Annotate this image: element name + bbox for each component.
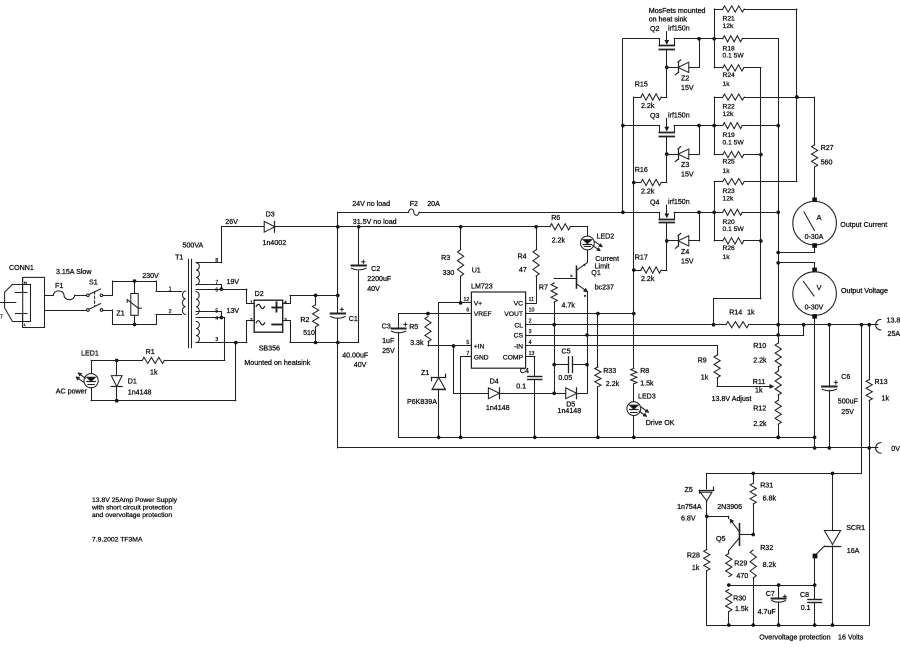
svg-text:0.1 5W: 0.1 5W	[723, 226, 745, 233]
svg-text:CS: CS	[514, 333, 524, 340]
svg-text:2.2k: 2.2k	[552, 237, 566, 245]
svg-text:SB356: SB356	[259, 345, 280, 353]
svg-text:510: 510	[303, 329, 315, 337]
svg-text:Q2: Q2	[650, 25, 660, 33]
svg-text:Z1: Z1	[421, 369, 429, 377]
svg-text:15V: 15V	[681, 171, 694, 179]
svg-text:0.1 5W: 0.1 5W	[723, 139, 745, 146]
svg-text:1: 1	[169, 286, 172, 292]
svg-text:R24: R24	[723, 72, 736, 79]
svg-text:16 Volts: 16 Volts	[838, 634, 864, 642]
svg-text:Q4: Q4	[650, 199, 660, 207]
svg-text:R21: R21	[723, 16, 736, 23]
svg-text:irf150n: irf150n	[668, 198, 690, 206]
svg-text:Z4: Z4	[681, 248, 689, 256]
svg-text:irf150n: irf150n	[668, 111, 690, 119]
svg-text:560: 560	[821, 159, 833, 167]
svg-text:CL: CL	[514, 322, 523, 329]
svg-text:2.2k: 2.2k	[753, 356, 767, 364]
svg-text:and overvoltage protection: and overvoltage protection	[92, 512, 172, 519]
svg-text:R31: R31	[760, 482, 773, 490]
svg-text:R15: R15	[635, 81, 648, 89]
svg-text:1n754A: 1n754A	[677, 503, 702, 511]
svg-text:R1: R1	[146, 348, 155, 356]
svg-text:C1: C1	[349, 315, 358, 323]
svg-text:D4: D4	[490, 378, 499, 386]
svg-text:12k: 12k	[723, 195, 734, 202]
svg-text:0.1: 0.1	[516, 383, 526, 391]
svg-text:1n4148: 1n4148	[128, 388, 152, 396]
svg-text:1k: 1k	[150, 368, 158, 376]
svg-text:6: 6	[215, 288, 218, 294]
svg-text:2200uF: 2200uF	[367, 275, 392, 283]
svg-text:+: +	[834, 378, 839, 387]
svg-text:R3: R3	[441, 254, 450, 262]
svg-text:26V: 26V	[225, 218, 238, 226]
svg-text:19V: 19V	[227, 278, 240, 286]
svg-text:470: 470	[736, 572, 748, 580]
svg-text:Z2: Z2	[681, 74, 689, 82]
svg-text:4.7k: 4.7k	[562, 301, 576, 309]
svg-text:LED3: LED3	[638, 393, 656, 401]
svg-text:1k: 1k	[723, 81, 731, 88]
svg-text:C4: C4	[520, 367, 529, 375]
svg-text:P6K839A: P6K839A	[407, 398, 437, 406]
svg-text:C3: C3	[382, 323, 391, 331]
svg-text:2: 2	[169, 309, 172, 315]
svg-text:13.8: 13.8	[887, 316, 900, 324]
svg-text:15V: 15V	[681, 84, 694, 92]
svg-text:2.2k: 2.2k	[641, 102, 655, 110]
svg-text:1: 1	[250, 300, 253, 305]
svg-text:0.05: 0.05	[558, 374, 572, 382]
svg-text:N: N	[24, 280, 27, 285]
svg-text:AC power: AC power	[56, 387, 88, 395]
svg-text:0V: 0V	[891, 445, 900, 453]
svg-text:3: 3	[529, 329, 532, 335]
svg-text:8: 8	[215, 258, 218, 264]
svg-text:D2: D2	[255, 290, 264, 298]
svg-text:16A: 16A	[847, 547, 860, 555]
svg-text:R5: R5	[409, 323, 418, 331]
svg-text:Q5: Q5	[716, 535, 726, 543]
svg-text:R6: R6	[551, 214, 560, 222]
svg-text:25V: 25V	[841, 408, 854, 416]
svg-text:V+: V+	[474, 301, 482, 308]
svg-text:D1: D1	[128, 378, 137, 386]
svg-text:3: 3	[215, 337, 218, 343]
svg-text:330: 330	[443, 269, 455, 277]
svg-text:LED2: LED2	[597, 233, 615, 241]
svg-text:T1: T1	[175, 253, 183, 261]
svg-text:R27: R27	[821, 144, 834, 152]
svg-text:13.8V Adjust: 13.8V Adjust	[712, 395, 752, 403]
svg-text:R18: R18	[723, 45, 736, 52]
svg-text:LED1: LED1	[81, 349, 99, 357]
svg-text:3: 3	[284, 317, 287, 322]
svg-text:15V: 15V	[681, 257, 694, 265]
svg-text:+IN: +IN	[474, 344, 485, 351]
svg-text:2.2k: 2.2k	[753, 420, 767, 428]
svg-text:R26: R26	[723, 245, 736, 252]
svg-text:1n4002: 1n4002	[263, 239, 287, 247]
svg-text:VC: VC	[514, 301, 524, 308]
svg-text:31.5V no load: 31.5V no load	[353, 218, 397, 226]
svg-text:3.15A Slow: 3.15A Slow	[56, 268, 92, 276]
svg-text:500uF: 500uF	[838, 398, 859, 406]
svg-text:40V: 40V	[354, 361, 367, 369]
svg-text:13.8V 25Amp Power Supply: 13.8V 25Amp Power Supply	[92, 497, 178, 504]
svg-text:with short circuit protection: with short circuit protection	[91, 505, 173, 512]
svg-text:D3: D3	[266, 211, 275, 219]
svg-text:1.5k: 1.5k	[640, 379, 654, 387]
svg-text:Overvoltage protection: Overvoltage protection	[759, 634, 830, 642]
svg-text:R9: R9	[698, 356, 707, 364]
svg-text:Drive OK: Drive OK	[646, 419, 675, 427]
svg-text:b: b	[571, 274, 573, 278]
svg-text:CONN1: CONN1	[9, 264, 34, 272]
svg-text:1k: 1k	[755, 387, 763, 395]
svg-text:25A: 25A	[888, 330, 900, 338]
svg-text:7: 7	[215, 280, 218, 286]
svg-text:+: +	[340, 305, 345, 314]
svg-text:47: 47	[519, 266, 527, 274]
svg-text:40V: 40V	[367, 285, 380, 293]
svg-text:0-30V: 0-30V	[805, 305, 824, 312]
svg-text:R29: R29	[734, 560, 747, 568]
svg-text:R8: R8	[640, 367, 649, 375]
svg-text:R16: R16	[635, 166, 648, 174]
svg-text:Q1: Q1	[591, 269, 601, 277]
svg-text:2.2k: 2.2k	[606, 380, 620, 388]
svg-text:F2: F2	[410, 200, 418, 208]
svg-text:on heat sink: on heat sink	[649, 15, 688, 23]
svg-text:+: +	[361, 257, 366, 266]
svg-text:C5: C5	[562, 348, 571, 356]
svg-text:Z1: Z1	[116, 309, 124, 317]
svg-text:R30: R30	[733, 595, 746, 603]
svg-text:S1: S1	[89, 279, 98, 287]
svg-text:7.9.2002 TF3MA: 7.9.2002 TF3MA	[92, 537, 143, 544]
svg-text:R12: R12	[753, 405, 766, 413]
svg-text:1uF: 1uF	[382, 337, 395, 345]
svg-text:2.2k: 2.2k	[641, 275, 655, 283]
svg-text:R32: R32	[760, 544, 773, 552]
svg-text:R4: R4	[518, 252, 527, 260]
svg-text:bc237: bc237	[595, 284, 614, 292]
svg-text:R7: R7	[539, 283, 548, 291]
svg-text:1.5k: 1.5k	[735, 605, 749, 613]
svg-text:0.1 5W: 0.1 5W	[723, 53, 745, 60]
svg-text:6.8k: 6.8k	[763, 494, 777, 502]
svg-text:Z5: Z5	[685, 486, 693, 494]
svg-text:7: 7	[466, 351, 469, 357]
svg-text:R19: R19	[723, 132, 736, 139]
svg-text:4: 4	[215, 316, 218, 322]
svg-text:1k: 1k	[692, 564, 700, 572]
svg-text:6.8V: 6.8V	[681, 514, 696, 522]
svg-text:R13: R13	[875, 378, 888, 386]
svg-text:e: e	[584, 294, 586, 298]
svg-text:R11: R11	[753, 378, 766, 386]
svg-text:R17: R17	[635, 254, 648, 262]
svg-text:13V: 13V	[227, 307, 240, 315]
svg-text:R10: R10	[753, 342, 766, 350]
svg-text:C2: C2	[371, 265, 380, 273]
svg-text:R2: R2	[300, 316, 309, 324]
svg-text:R23: R23	[723, 188, 736, 195]
svg-text:Q3: Q3	[650, 112, 660, 120]
svg-text:R14: R14	[729, 308, 742, 316]
svg-text:LM723: LM723	[471, 283, 493, 291]
svg-text:20A: 20A	[427, 200, 440, 208]
svg-text:5: 5	[215, 308, 218, 314]
svg-text:C8: C8	[800, 591, 809, 599]
svg-text:R20: R20	[723, 219, 736, 226]
svg-text:MosFets mounted: MosFets mounted	[649, 7, 706, 15]
svg-text:11: 11	[529, 297, 534, 303]
svg-text:500VA: 500VA	[183, 242, 204, 250]
svg-text:GND: GND	[474, 354, 489, 361]
svg-text:irf150n: irf150n	[668, 25, 690, 33]
svg-text:Z3: Z3	[681, 161, 689, 169]
svg-text:R25: R25	[723, 159, 736, 166]
svg-text:13: 13	[529, 351, 535, 357]
svg-text:230V: 230V	[142, 272, 159, 280]
svg-text:1k: 1k	[723, 254, 731, 261]
svg-text:40.00uF: 40.00uF	[342, 351, 369, 359]
svg-text:0-30A: 0-30A	[805, 234, 824, 241]
svg-text:Mounted on heatsink: Mounted on heatsink	[244, 359, 310, 367]
svg-text:24V no load: 24V no load	[352, 200, 390, 208]
svg-text:R28: R28	[687, 551, 700, 559]
svg-text:-IN: -IN	[514, 344, 523, 351]
svg-text:4.7uF: 4.7uF	[758, 608, 777, 616]
svg-text:COMP: COMP	[503, 354, 524, 361]
svg-text:7: 7	[0, 315, 3, 321]
svg-text:Output Voltage: Output Voltage	[841, 287, 888, 295]
svg-text:1n4148: 1n4148	[558, 407, 582, 415]
svg-text:12k: 12k	[723, 111, 734, 118]
svg-text:R22: R22	[723, 104, 736, 111]
svg-text:SCR1: SCR1	[846, 524, 865, 532]
svg-text:10: 10	[529, 308, 535, 314]
svg-text:Output Current: Output Current	[840, 221, 887, 229]
svg-text:2.2k: 2.2k	[641, 187, 655, 195]
svg-text:R33: R33	[603, 367, 616, 375]
svg-text:+: +	[403, 320, 408, 329]
svg-text:6: 6	[466, 308, 469, 314]
svg-text:1k: 1k	[701, 373, 709, 381]
svg-text:2N3906: 2N3906	[717, 503, 742, 511]
svg-text:0.1: 0.1	[801, 604, 811, 612]
svg-text:C6: C6	[841, 373, 850, 381]
svg-text:VREF: VREF	[474, 311, 492, 318]
svg-text:C7: C7	[766, 590, 775, 598]
svg-text:1k: 1k	[747, 308, 755, 316]
svg-text:3.3k: 3.3k	[410, 339, 424, 347]
svg-text:c: c	[584, 263, 586, 267]
svg-text:+: +	[783, 592, 788, 601]
svg-text:25V: 25V	[382, 347, 395, 355]
svg-text:1n4148: 1n4148	[486, 404, 510, 412]
svg-text:12k: 12k	[723, 23, 734, 30]
svg-text:F1: F1	[55, 282, 63, 290]
svg-text:VOUT: VOUT	[504, 311, 523, 318]
svg-text:1k: 1k	[723, 168, 731, 175]
svg-text:U1: U1	[472, 267, 481, 275]
svg-text:2: 2	[250, 317, 253, 322]
svg-text:2: 2	[529, 319, 532, 325]
svg-text:8.2k: 8.2k	[763, 561, 777, 569]
svg-text:1k: 1k	[882, 395, 890, 403]
